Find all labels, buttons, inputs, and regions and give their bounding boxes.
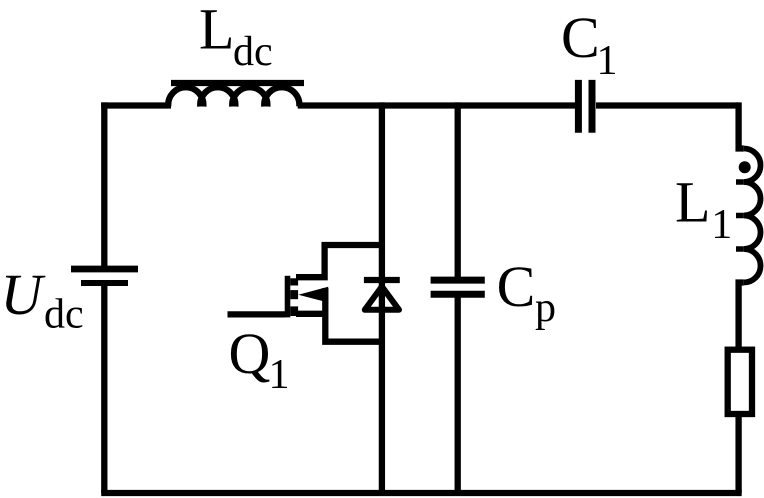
svg-text:Q: Q [229, 321, 271, 386]
svg-text:C: C [561, 5, 600, 70]
svg-text:1: 1 [711, 202, 732, 248]
svg-text:dc: dc [233, 29, 273, 75]
svg-text:U: U [1, 262, 47, 327]
svg-text:1: 1 [269, 352, 290, 398]
svg-text:p: p [535, 285, 556, 331]
svg-text:1: 1 [597, 38, 618, 84]
svg-text:C: C [497, 254, 536, 319]
svg-text:L: L [675, 169, 710, 234]
svg-text:dc: dc [44, 292, 84, 338]
svg-text:L: L [199, 0, 234, 62]
